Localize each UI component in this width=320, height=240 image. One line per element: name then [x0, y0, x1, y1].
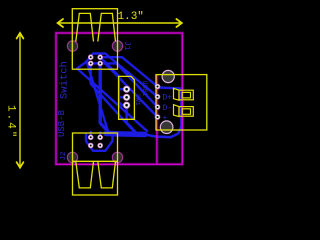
svg-text:Switch: Switch — [59, 61, 71, 99]
svg-text:1.4": 1.4" — [5, 105, 17, 139]
svg-text:USB-B: USB-B — [57, 109, 67, 137]
svg-text:D-: D- — [163, 104, 173, 113]
svg-text:1.3": 1.3" — [118, 11, 144, 23]
svg-text:J2: J2 — [60, 151, 68, 160]
svg-text:D+: D+ — [163, 94, 173, 103]
svg-text:-: - — [163, 83, 168, 92]
svg-text:SW1: SW1 — [134, 94, 141, 106]
svg-text:J1: J1 — [122, 41, 131, 51]
svg-text:USB1: USB1 — [141, 81, 148, 97]
svg-text:+: + — [163, 114, 168, 123]
